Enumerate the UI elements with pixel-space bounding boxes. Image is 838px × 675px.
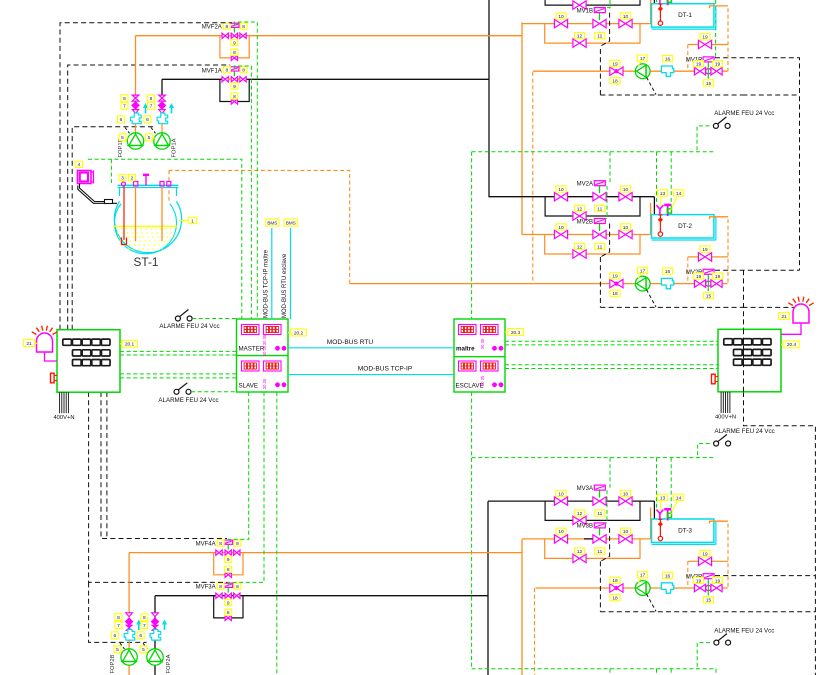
- level sensor (red) DT-1: [658, 4, 663, 25]
- label 11: [595, 548, 605, 555]
- label 10: [556, 490, 566, 497]
- label 14: [674, 190, 684, 197]
- motor valve MV1B: [593, 19, 606, 27]
- label 3: [119, 174, 126, 181]
- flex connector 6 (FOP1B): [131, 113, 142, 124]
- wire dashed MV3B to pump enclosure: [600, 528, 609, 562]
- label 7: [115, 622, 122, 629]
- valve 10 (MV1B right): [619, 19, 632, 27]
- pump FOP1B: [127, 133, 143, 149]
- probe 13 (DT-1): [656, 0, 663, 4]
- tank DT-1: [652, 4, 716, 29]
- svg-text:8: 8: [227, 610, 230, 616]
- pipe DT-3 outlet (orange): [710, 521, 729, 523]
- label 9: [225, 599, 232, 606]
- svg-text:16: 16: [665, 573, 671, 579]
- cable instrument 4 to tank: [78, 184, 117, 204]
- svg-text:19: 19: [612, 274, 618, 280]
- power feed 400V+N (right): [715, 392, 736, 421]
- actuator MVF4A: [227, 544, 229, 550]
- label 19: [610, 60, 620, 67]
- svg-text:5: 5: [121, 135, 124, 141]
- svg-text:8: 8: [236, 584, 239, 590]
- pipe MV1B riser over tank rim: [650, 0, 652, 24]
- label 7: [141, 622, 148, 629]
- label 20.4: [784, 341, 800, 348]
- svg-text:8: 8: [233, 94, 236, 100]
- valve 12 (MV1A bypass): [573, 1, 586, 9]
- pipe MV3B supply line (orange): [522, 538, 651, 540]
- svg-text:8: 8: [117, 615, 120, 621]
- wire green to MV2A/MV2B actuators: [609, 152, 611, 184]
- status dots (SLAVE): [275, 382, 280, 387]
- label 5: [119, 134, 126, 141]
- label 8: [240, 23, 247, 30]
- digit block (MASTER 1): [242, 325, 260, 335]
- svg-text:2: 2: [131, 176, 134, 182]
- valve 12 (MV2A bypass): [573, 212, 586, 220]
- svg-text:5: 5: [148, 135, 151, 141]
- svg-text:8: 8: [227, 567, 230, 573]
- pipe DT-1 outlet (orange): [710, 6, 729, 8]
- svg-text:20.4: 20.4: [787, 342, 797, 348]
- svg-text:MVF4A: MVF4A: [196, 542, 216, 548]
- pipe MV2A bypass loop: [545, 197, 640, 216]
- label 12: [574, 510, 584, 517]
- bus riser MOD-BUS RTU esclave (cyan): [290, 228, 292, 319]
- pump interlock dashes (DT-1): [647, 77, 657, 94]
- label 5: [146, 134, 153, 141]
- svg-text:ALARME FEU 24 Vcc: ALARME FEU 24 Vcc: [714, 110, 774, 117]
- wire green manifold DT-2 (y=151.7): [472, 151, 716, 153]
- check valve (FOP1A): [159, 110, 165, 114]
- label 8: [234, 540, 241, 547]
- svg-text:8: 8: [219, 584, 222, 590]
- valve 19 (DT-1 bypass): [698, 40, 711, 48]
- wire dashed chain MV2R actuator line: [715, 269, 800, 271]
- wire green MVF1A to MASTER: [234, 66, 251, 319]
- label 8: [115, 614, 122, 621]
- pipe MV3R bypass (orange): [688, 560, 728, 562]
- svg-text:8: 8: [225, 68, 228, 74]
- svg-text:MVF1A: MVF1A: [202, 68, 222, 74]
- label 17: [637, 267, 647, 274]
- label 8: [225, 566, 232, 573]
- digit block (maitre 2): [481, 325, 499, 335]
- label 8: [217, 583, 224, 590]
- label 19: [610, 273, 620, 280]
- svg-text:MOD-BUS TCP-IP maître: MOD-BUS TCP-IP maître: [263, 249, 269, 318]
- motor valve MV3A: [593, 497, 606, 505]
- isolation valve 8 (FOP2B): [126, 613, 133, 617]
- label 9: [231, 83, 238, 90]
- wire dashed MV1B to pump enclosure: [600, 13, 609, 47]
- label 10: [620, 186, 630, 193]
- svg-text:17: 17: [640, 268, 646, 274]
- wire orange return DT-3 down (dashed): [534, 588, 536, 675]
- cable elbow to pump FOP2A: [143, 643, 148, 649]
- wire green SLAVE to MVF3A: [228, 392, 264, 585]
- label 16: [662, 268, 672, 275]
- motor valve MV2B: [593, 230, 606, 238]
- level probe (red) in ST-1: [122, 186, 127, 245]
- probe T on ST-1: [143, 174, 149, 186]
- pipe DT-2 outlet (orange): [710, 217, 729, 219]
- label 19: [610, 577, 620, 584]
- flex connector 16 (DT-2): [661, 278, 673, 288]
- valve group MV3R: [694, 584, 705, 592]
- svg-text:6: 6: [139, 633, 142, 639]
- svg-text:DT-2: DT-2: [678, 223, 692, 230]
- wire green alarm left bottom: [191, 391, 236, 393]
- wire green alarm left top: [192, 318, 236, 320]
- label 11: [595, 205, 605, 212]
- pump FOP2B: [121, 649, 137, 665]
- svg-text:16: 16: [665, 269, 671, 275]
- pump enclosure DT-2 (dashed): [599, 257, 601, 307]
- svg-text:7: 7: [150, 104, 153, 110]
- check valve (FOP2B): [126, 625, 132, 630]
- beacon 21 (left): [32, 326, 57, 352]
- svg-text:ALARME FEU 24 Vcc: ALARME FEU 24 Vcc: [159, 323, 219, 330]
- wire dashed chain right keypad to MV3R: [744, 392, 816, 675]
- label 10: [556, 224, 566, 231]
- label 15: [703, 292, 713, 299]
- svg-text:19: 19: [702, 551, 708, 557]
- label 21: [24, 340, 35, 347]
- svg-text:ALARME FEU 24 Vcc: ALARME FEU 24 Vcc: [158, 397, 218, 404]
- label 18: [610, 595, 620, 602]
- pipe MVF1A main line: [162, 78, 489, 80]
- label 6: [111, 632, 118, 639]
- label 17: [637, 55, 647, 62]
- svg-text:8: 8: [242, 68, 245, 74]
- svg-text:1: 1: [191, 218, 194, 224]
- balancing valve 19/18 (DT-3): [610, 584, 623, 592]
- svg-text:30 35: 30 35: [262, 378, 267, 389]
- label 17: [637, 572, 647, 579]
- alarm switch ALARME FEU (DT-3): [714, 634, 731, 646]
- balancing valve 19/18 (DT-1): [610, 67, 623, 75]
- svg-text:18: 18: [612, 596, 618, 602]
- svg-text:maître: maître: [456, 346, 475, 353]
- tank fittings right: [160, 182, 164, 187]
- svg-text:8: 8: [242, 24, 245, 30]
- pipe DT-1 return line (orange): [533, 70, 728, 72]
- valves MVF4A (three in line): [216, 550, 222, 555]
- cable dashed keypad to MVF3A: [89, 392, 228, 582]
- wire green keypad-MASTER pair 1: [120, 350, 237, 352]
- wire green to MV3A/MV3B actuators: [609, 458, 611, 488]
- label 13: [657, 190, 667, 197]
- pipe DT-3 outlet drop (dashed): [727, 524, 729, 589]
- svg-text:12: 12: [577, 34, 583, 40]
- svg-text:11: 11: [597, 511, 602, 517]
- wire green DT-1 drops from top edge: [609, 0, 611, 9]
- tank fitting 3: [122, 182, 126, 186]
- svg-text:12: 12: [577, 511, 583, 517]
- label 18: [610, 290, 620, 297]
- svg-text:8: 8: [236, 541, 239, 547]
- svg-text:11: 11: [597, 549, 602, 555]
- svg-text:10: 10: [623, 187, 629, 193]
- svg-text:19: 19: [696, 62, 702, 68]
- balancing valve 19/18 (DT-2): [610, 279, 623, 287]
- pipe MVF1A bypass loop: [220, 79, 249, 101]
- pump 17 (DT-2): [635, 276, 650, 291]
- bus MOD-BUS RTU (cyan): [288, 347, 454, 349]
- wire orange supply riser MV1B/MV2B (x=522): [521, 22, 523, 234]
- pipe DT-2 outlet drop (dashed): [727, 219, 729, 284]
- svg-text:MOD-BUS RTU: MOD-BUS RTU: [327, 339, 374, 346]
- wire green ESCLAVE-right keypad pair 1: [505, 340, 718, 342]
- svg-text:MV3A: MV3A: [577, 486, 593, 492]
- svg-text:MOD-BUS RTU esclave: MOD-BUS RTU esclave: [282, 253, 288, 318]
- flow arrow (FOP2A): [162, 620, 167, 631]
- valve 7 (FOP2B): [126, 618, 133, 625]
- svg-text:8: 8: [123, 96, 126, 102]
- label 20.3: [508, 329, 524, 336]
- valves MVF2A (three in line): [222, 33, 228, 38]
- riser FOP1B from MVF2A: [135, 36, 137, 94]
- wire dashed chain MV1R-MV2R (x=799.5): [715, 58, 800, 271]
- label 9: [225, 556, 232, 563]
- wire green ESCLAVE-right keypad pair 2: [505, 364, 718, 366]
- svg-text:BMS: BMS: [267, 220, 277, 225]
- alarm switch ALARME FEU (DT-1): [713, 117, 730, 128]
- alarm switch ALARME FEU (left bottom): [174, 383, 191, 395]
- probe 14 (DT-1): [664, 0, 671, 5]
- riser FOP2A from MVF3A: [154, 596, 156, 675]
- label 8: [223, 67, 230, 74]
- riser FOP1A from MVF1A: [161, 79, 163, 96]
- svg-text:19: 19: [612, 578, 618, 584]
- label 19: [693, 273, 703, 280]
- svg-text:19: 19: [696, 578, 702, 584]
- svg-text:7: 7: [117, 623, 120, 629]
- svg-text:12: 12: [577, 549, 583, 555]
- svg-text:5: 5: [142, 647, 145, 653]
- svg-text:15: 15: [706, 598, 712, 604]
- wire green manifold DT-3 (y=457.6): [472, 457, 716, 459]
- svg-text:11: 11: [597, 207, 602, 213]
- valve 10 (MV3B left): [554, 535, 567, 543]
- svg-text:19: 19: [702, 247, 708, 253]
- status dots (maitre): [492, 346, 497, 351]
- label 8: [141, 614, 148, 621]
- svg-text:ALARME FEU 24 Vcc: ALARME FEU 24 Vcc: [715, 428, 775, 435]
- label 19: [700, 34, 710, 41]
- beacon 21 (right): [788, 297, 813, 323]
- label 18: [610, 78, 620, 85]
- svg-text:5: 5: [116, 647, 119, 653]
- svg-text:10: 10: [558, 14, 564, 20]
- svg-text:20.2: 20.2: [294, 330, 304, 336]
- svg-text:DT-1: DT-1: [678, 12, 692, 19]
- tank DT-3: [652, 519, 716, 544]
- label 19: [712, 577, 722, 584]
- pump 17 (DT-3): [635, 581, 650, 596]
- label 19: [712, 273, 722, 280]
- flow arrow (FOP2B): [136, 620, 141, 631]
- label 4: [75, 161, 83, 168]
- label 5: [140, 646, 147, 653]
- svg-text:FOP1A: FOP1A: [172, 138, 178, 157]
- digit block (ESCLAVE 2): [481, 361, 499, 371]
- svg-text:21: 21: [26, 341, 32, 347]
- wire green riser ESCLAVE box to bottom manifold: [471, 392, 473, 669]
- digit block (ESCLAVE 1): [459, 361, 477, 371]
- pipe MVF4A main line: [129, 552, 522, 554]
- wire green keypad-MASTER pair 2: [120, 373, 237, 375]
- label 20.2: [291, 329, 307, 336]
- svg-text:BMS: BMS: [286, 220, 296, 225]
- label 10: [556, 186, 566, 193]
- pump interlock dashes (DT-3): [647, 594, 657, 611]
- svg-text:7: 7: [143, 623, 146, 629]
- svg-text:6: 6: [113, 633, 116, 639]
- pipe MV2A supply line (black): [489, 196, 654, 198]
- tank DT-2: [652, 215, 716, 240]
- pipe MVF2A main line: [136, 35, 523, 37]
- wire beacon to panel: [781, 323, 801, 334]
- label 7: [148, 102, 155, 109]
- svg-text:20.1: 20.1: [125, 342, 135, 348]
- svg-text:8: 8: [233, 50, 236, 56]
- valve 8 (MVF4A bypass): [225, 572, 231, 577]
- level sensor (red) DT-3: [658, 519, 663, 540]
- digit block (maitre 1): [459, 325, 477, 335]
- svg-text:FOP2B: FOP2B: [110, 654, 116, 673]
- svg-text:FOP2A: FOP2A: [166, 654, 172, 673]
- pipe MVF3A main line: [155, 595, 488, 597]
- wire orange return into ST-1 tank (dashed drop): [168, 170, 170, 215]
- svg-text:10: 10: [558, 187, 564, 193]
- valve 10 (MV2A right): [619, 193, 632, 201]
- svg-text:11: 11: [597, 34, 602, 40]
- label 20.1: [122, 340, 138, 347]
- pipe DT-2 return line (orange): [350, 283, 728, 285]
- svg-text:19: 19: [702, 35, 708, 41]
- wire green probe drops DT-2: [656, 152, 658, 205]
- level sensor (red) DT-2: [658, 215, 663, 236]
- svg-text:7: 7: [123, 104, 126, 110]
- svg-text:12: 12: [577, 245, 583, 251]
- flex connector 6 (FOP2B): [124, 629, 135, 640]
- svg-text:19: 19: [715, 274, 721, 280]
- fitting (green) DT-2: [667, 209, 671, 213]
- label 19: [700, 246, 710, 253]
- svg-text:8: 8: [143, 615, 146, 621]
- svg-text:21: 21: [781, 314, 787, 320]
- svg-text:MOD-BUS TCP-IP: MOD-BUS TCP-IP: [358, 366, 413, 373]
- wire orange return DT-2 to ST-1 (dashed riser): [169, 170, 350, 283]
- svg-text:20.3: 20.3: [511, 330, 521, 336]
- wire green alarm DT-1: [697, 126, 710, 152]
- svg-text:MASTER: MASTER: [239, 346, 265, 353]
- buzzer (left panel): [51, 373, 58, 383]
- svg-text:30 35: 30 35: [480, 338, 485, 349]
- pipe MV1R bypass (orange): [688, 44, 728, 46]
- label 6: [117, 116, 124, 123]
- svg-text:12: 12: [577, 207, 583, 213]
- valve 7 (FOP1A): [158, 102, 165, 109]
- label 9: [231, 39, 238, 46]
- label 10: [556, 13, 566, 20]
- isolation valve 8 (FOP1B): [132, 95, 139, 101]
- svg-text:DT-3: DT-3: [678, 527, 692, 534]
- cable dashed keypad to pumps FOP2: [89, 582, 147, 642]
- probe 13 (DT-3): [656, 510, 663, 520]
- flex connector 16 (DT-1): [661, 66, 673, 76]
- svg-text:3: 3: [121, 176, 124, 182]
- tank fitting 2: [134, 182, 138, 187]
- svg-text:8: 8: [225, 24, 228, 30]
- power feed 400V+N (left): [53, 392, 74, 421]
- isolation valve 8 (FOP1A): [159, 95, 166, 101]
- pump interlock dashes (DT-2): [647, 290, 657, 307]
- svg-text:8: 8: [219, 541, 222, 547]
- actuator MVF3A: [227, 587, 229, 593]
- valve 12 (MV2B bypass): [573, 250, 586, 258]
- fitting (green) DT-1: [667, 0, 671, 2]
- valve 19 (DT-3 bypass): [698, 557, 711, 565]
- svg-text:17: 17: [640, 573, 646, 579]
- label 10: [620, 224, 630, 231]
- svg-text:6: 6: [120, 117, 123, 123]
- label 19: [700, 550, 710, 557]
- wire black supply riser MV1A/MV2A (x=489): [488, 0, 490, 197]
- cable elbow to pump FOP1B: [125, 128, 130, 134]
- riser FOP1A into tank: [161, 187, 163, 241]
- label 8: [231, 93, 238, 100]
- label 19: [712, 61, 722, 68]
- valve 8 (MVF2A bypass): [231, 55, 237, 60]
- label 11: [595, 33, 605, 40]
- wire dashed chain through right keypad: [743, 329, 745, 392]
- svg-text:16: 16: [665, 57, 671, 63]
- status dots (MASTER): [275, 346, 280, 351]
- label 16: [662, 56, 672, 63]
- wire MV3R bypass drops (dashed): [687, 561, 689, 588]
- fitting (green) DT-3: [667, 513, 671, 517]
- check valve (FOP2A): [152, 625, 158, 630]
- label 13: [657, 494, 667, 501]
- label BMS: [266, 219, 280, 226]
- valve 7 (FOP1B): [132, 102, 139, 109]
- alarm switch ALARME FEU (left top): [175, 310, 192, 322]
- wire green alarm DT-3: [697, 643, 710, 669]
- label 15: [703, 597, 713, 604]
- pipe MV1B bypass loop: [545, 24, 640, 43]
- wire dashed chain down to right keypad: [743, 270, 745, 329]
- label 8: [148, 95, 155, 102]
- svg-text:9: 9: [233, 40, 236, 46]
- valve group MV1R: [694, 67, 705, 75]
- label 8: [231, 49, 238, 56]
- pipe MVF3A bypass loop: [214, 596, 243, 618]
- actuator MV1R: [703, 57, 714, 62]
- svg-text:30 35: 30 35: [262, 334, 267, 345]
- digit block (MASTER 2): [264, 325, 282, 335]
- motor valve MV3B: [593, 535, 606, 543]
- label 6: [137, 632, 144, 639]
- label 7: [121, 102, 128, 109]
- wire green SLAVE down (x=276.8): [276, 392, 278, 675]
- flex connector 6 (FOP1A): [157, 113, 168, 124]
- wire dashed MV2B to pump enclosure: [600, 224, 609, 258]
- valve 10 (MV3B right): [619, 535, 632, 543]
